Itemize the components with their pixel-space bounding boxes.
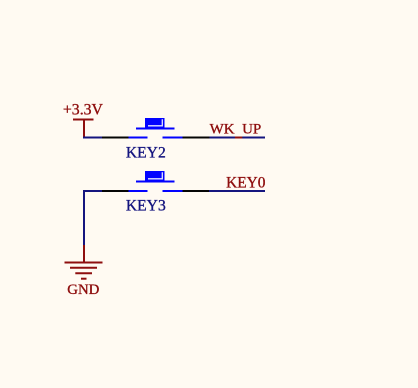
- wire: [183, 190, 210, 192]
- net label WK_UP wire: [210, 137, 266, 139]
- power +3.3V: [73, 120, 94, 137]
- svg-text:UP: UP: [242, 122, 261, 138]
- wire: [183, 137, 210, 139]
- svg-text:GND: GND: [67, 282, 99, 298]
- svg-text:KEY3: KEY3: [126, 197, 166, 214]
- switch SW KEY2: [129, 118, 183, 138]
- wire: [102, 190, 129, 192]
- net label KEY0 wire: [209, 190, 265, 192]
- wire: [83, 190, 102, 192]
- svg-text:WK: WK: [210, 122, 235, 138]
- svg-text:KEY2: KEY2: [126, 144, 166, 161]
- wire: [83, 190, 85, 245]
- switch SW KEY3: [129, 171, 183, 191]
- svg-text:KEY0: KEY0: [226, 175, 266, 192]
- net label WK_UP: [210, 122, 262, 138]
- wire: [102, 137, 129, 139]
- wire: [83, 137, 102, 139]
- ground: [65, 245, 103, 279]
- svg-text:+3.3V: +3.3V: [63, 102, 104, 119]
